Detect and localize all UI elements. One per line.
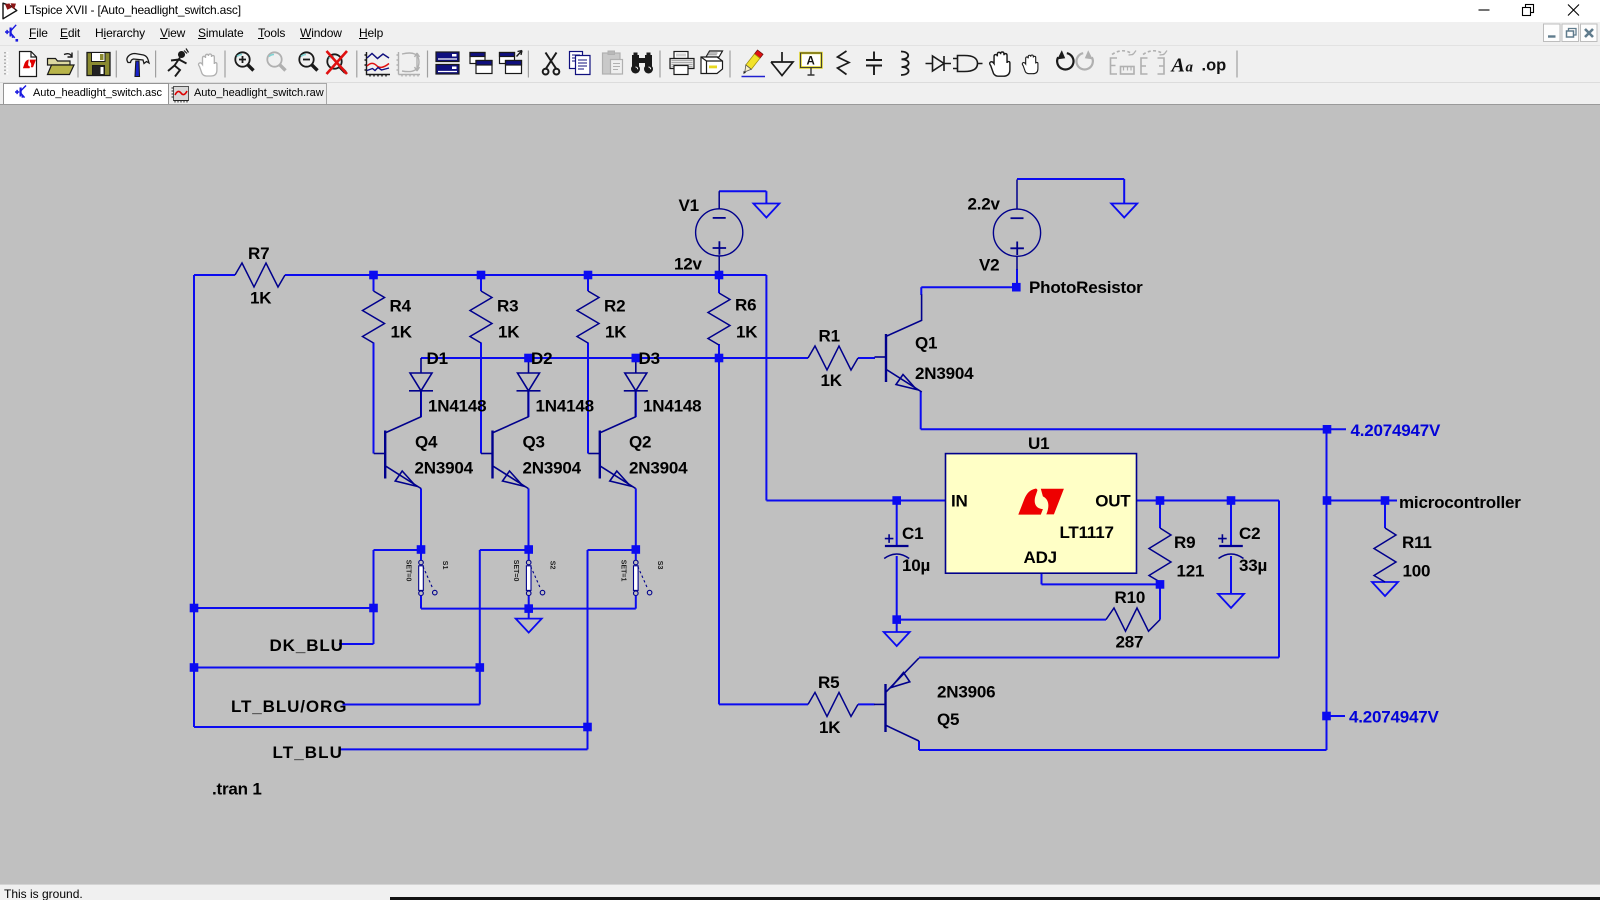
svg-text:microcontroller: microcontroller: [1399, 493, 1521, 512]
svg-text:R2: R2: [604, 297, 625, 316]
svg-text:R9: R9: [1174, 533, 1195, 552]
svg-text:V1: V1: [679, 196, 699, 215]
svg-text:U1: U1: [1028, 434, 1049, 453]
svg-text:SET=1: SET=1: [619, 560, 626, 582]
svg-text:33µ: 33µ: [1239, 556, 1267, 575]
svg-text:R6: R6: [735, 296, 756, 315]
svg-text:1K: 1K: [498, 323, 520, 342]
svg-text:ADJ: ADJ: [1024, 548, 1057, 567]
svg-text:S3: S3: [656, 561, 663, 570]
svg-text:1N4148: 1N4148: [536, 397, 594, 416]
svg-text:4.2074947V: 4.2074947V: [1351, 421, 1442, 440]
svg-text:R7: R7: [248, 244, 269, 263]
svg-text:12v: 12v: [674, 254, 703, 273]
svg-text:LT_BLU: LT_BLU: [273, 743, 344, 762]
svg-text:V2: V2: [979, 255, 999, 274]
svg-text:S1: S1: [441, 561, 448, 570]
svg-text:LT_BLU/ORG: LT_BLU/ORG: [231, 697, 347, 716]
svg-text:Q4: Q4: [415, 433, 438, 452]
svg-text:1N4148: 1N4148: [643, 397, 701, 416]
svg-text:D3: D3: [639, 349, 660, 368]
svg-text:a: a: [1186, 60, 1194, 76]
svg-text:4.2074947V: 4.2074947V: [1349, 708, 1440, 727]
svg-text:1K: 1K: [736, 323, 758, 342]
svg-text:10µ: 10µ: [902, 556, 930, 575]
svg-text:.tran 1: .tran 1: [212, 780, 262, 799]
svg-text:Q3: Q3: [523, 433, 545, 452]
svg-text:100: 100: [1403, 562, 1431, 581]
svg-text:LT1117: LT1117: [1060, 523, 1114, 542]
svg-text:121: 121: [1177, 562, 1205, 581]
svg-text:1K: 1K: [605, 323, 627, 342]
svg-text:1K: 1K: [250, 289, 272, 308]
svg-text:PhotoResistor: PhotoResistor: [1029, 278, 1143, 297]
svg-text:1K: 1K: [391, 323, 413, 342]
svg-text:R5: R5: [818, 673, 839, 692]
svg-text:Q2: Q2: [629, 433, 651, 452]
svg-text:2N3906: 2N3906: [937, 683, 995, 702]
svg-text:R1: R1: [819, 327, 840, 346]
svg-text:D1: D1: [427, 349, 448, 368]
svg-text:A: A: [807, 56, 815, 68]
svg-text:OUT: OUT: [1095, 492, 1131, 511]
svg-text:2.2v: 2.2v: [968, 194, 1001, 213]
svg-text:Q1: Q1: [915, 334, 937, 353]
svg-text:2N3904: 2N3904: [415, 459, 474, 478]
svg-text:S2: S2: [549, 561, 556, 570]
svg-text:C2: C2: [1239, 524, 1260, 543]
svg-text:SET=0: SET=0: [512, 560, 519, 582]
svg-text:R10: R10: [1115, 588, 1146, 607]
svg-text:1K: 1K: [821, 371, 843, 390]
svg-text:C1: C1: [902, 524, 923, 543]
svg-text:2N3904: 2N3904: [523, 459, 582, 478]
svg-text:2N3904: 2N3904: [629, 459, 688, 478]
svg-text:287: 287: [1116, 633, 1144, 652]
svg-text:2N3904: 2N3904: [915, 364, 974, 383]
svg-text:Q5: Q5: [937, 710, 959, 729]
svg-text:R3: R3: [497, 297, 518, 316]
svg-text:SET=0: SET=0: [405, 560, 412, 582]
svg-text:1K: 1K: [819, 718, 841, 737]
svg-text:A: A: [1170, 55, 1185, 77]
svg-text:R11: R11: [1402, 533, 1432, 552]
svg-text:D2: D2: [531, 349, 552, 368]
svg-text:DK_BLU: DK_BLU: [270, 636, 344, 655]
svg-text:R4: R4: [390, 297, 412, 316]
svg-text:IN: IN: [951, 492, 968, 511]
svg-text:.op: .op: [1202, 57, 1227, 75]
svg-text:1N4148: 1N4148: [428, 397, 486, 416]
